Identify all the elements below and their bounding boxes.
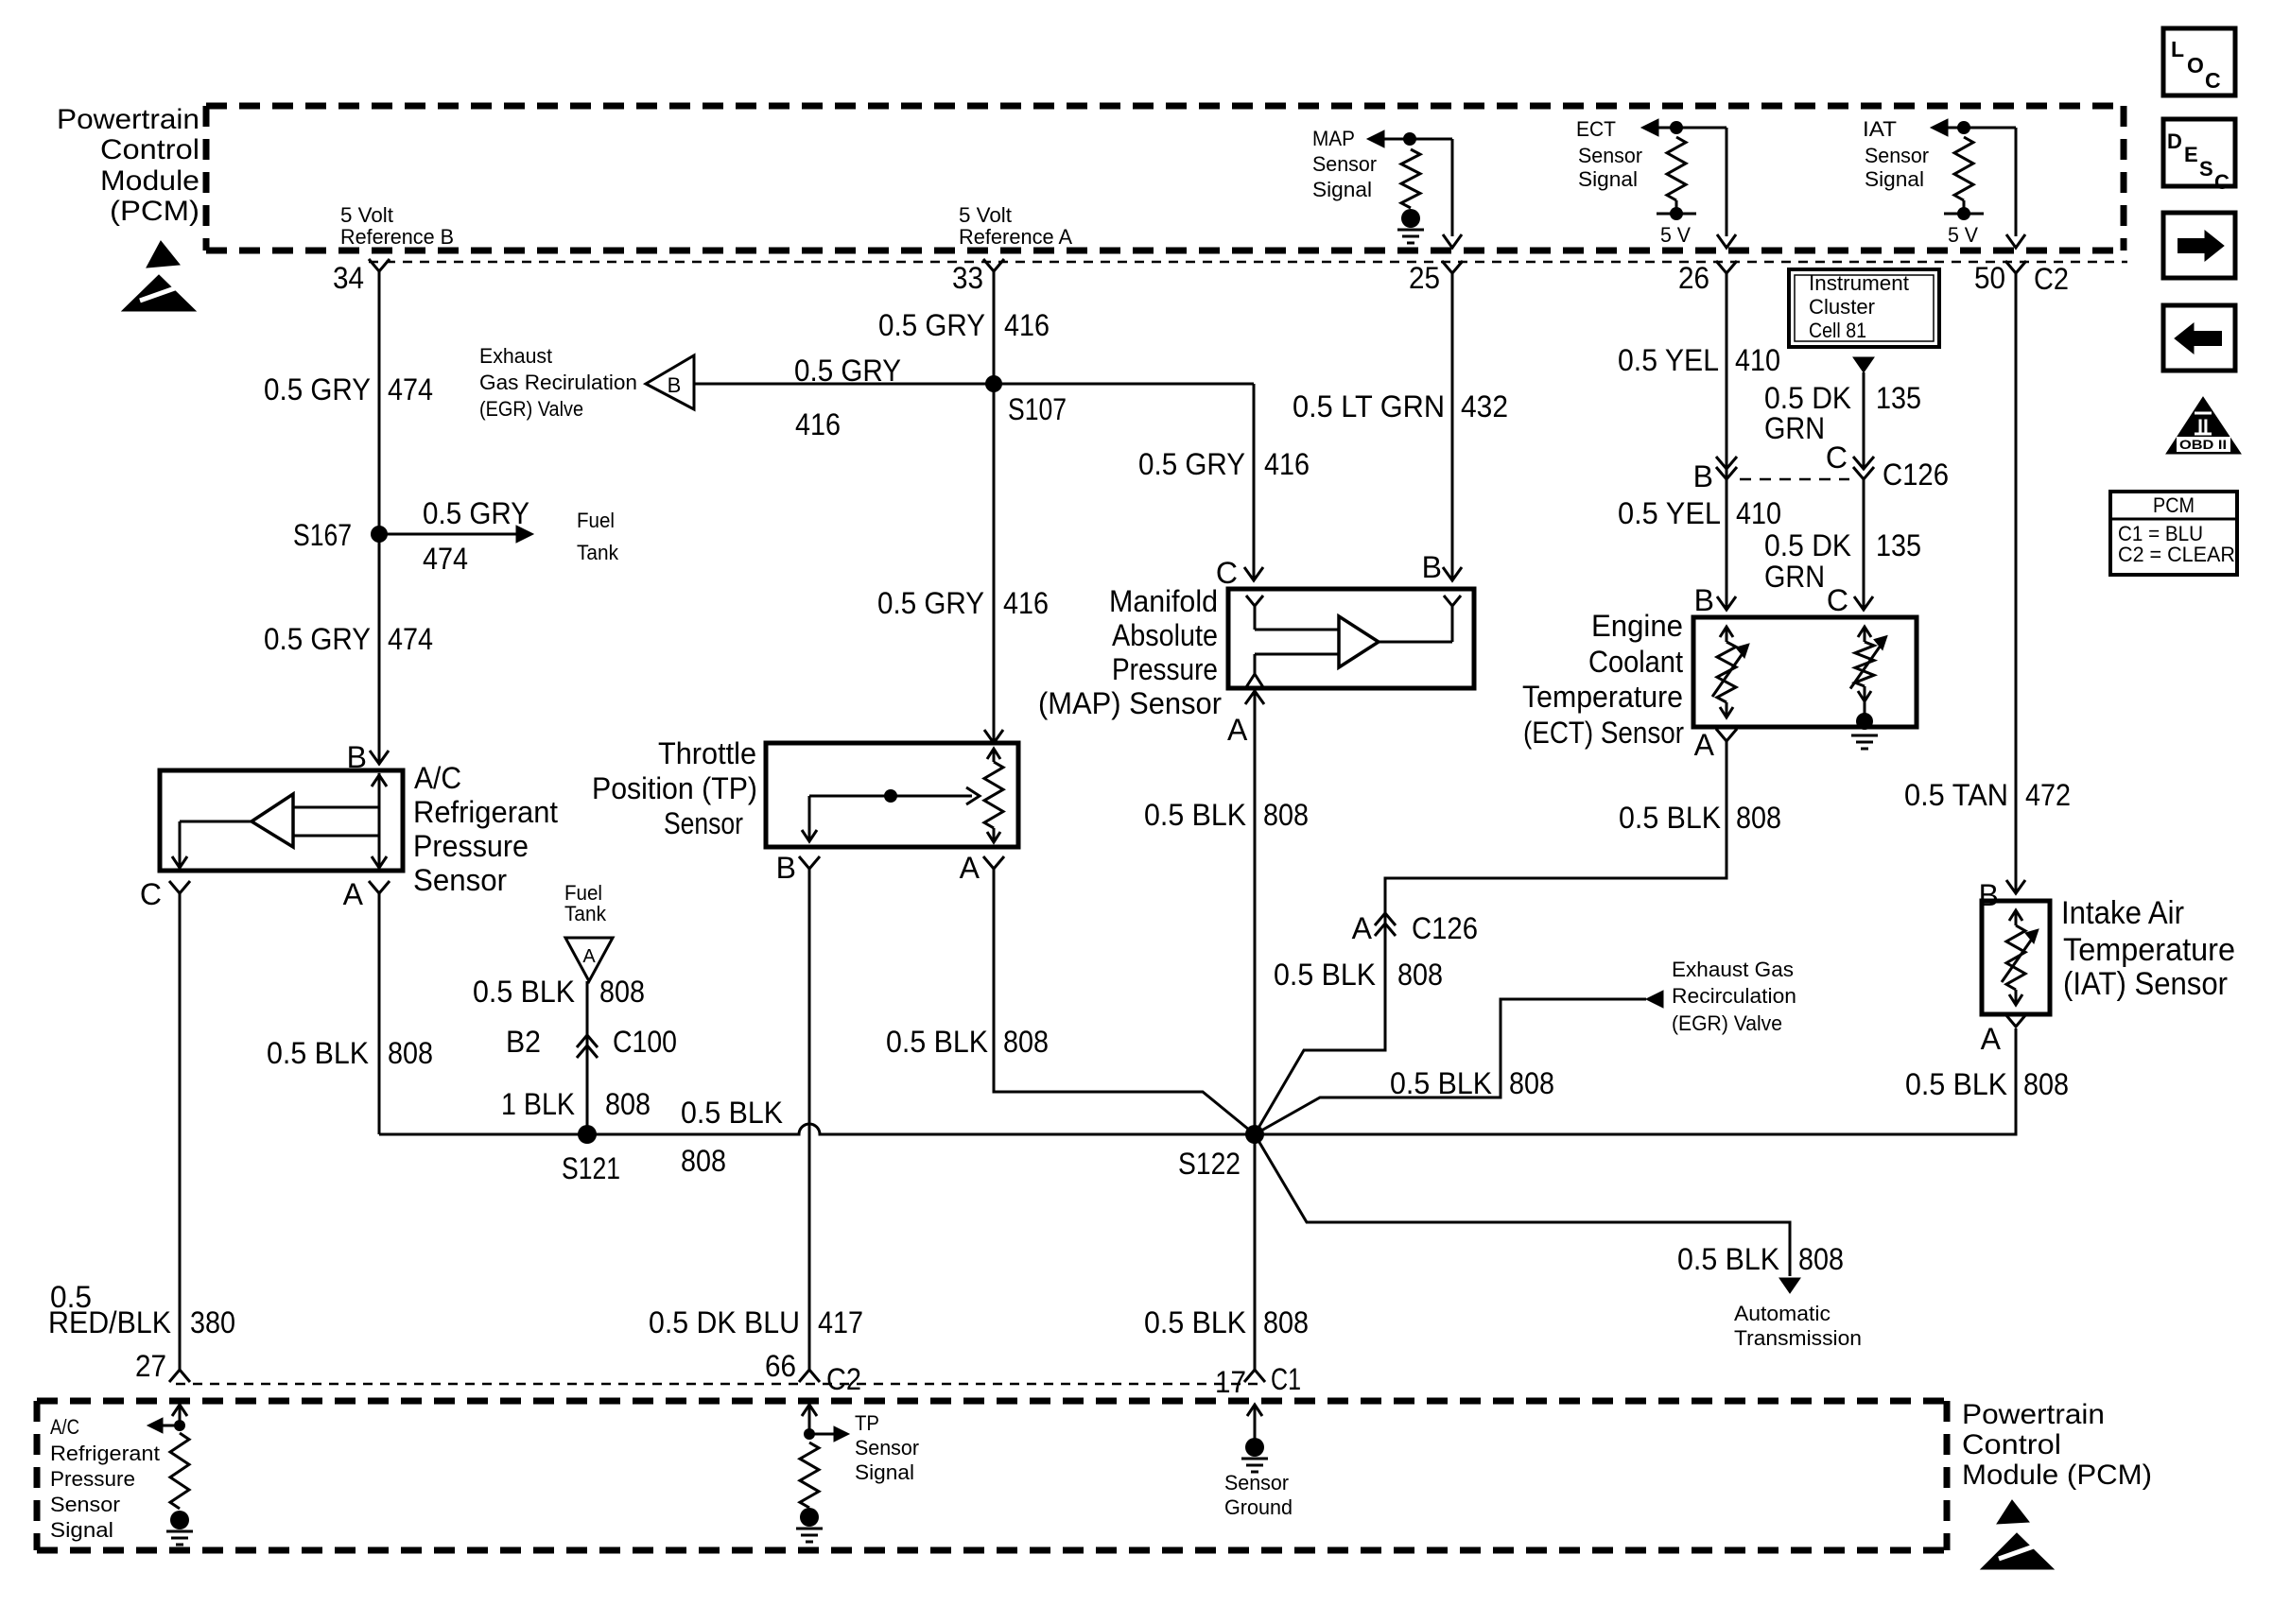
MAP sensor pin A arrowhead bbox=[1245, 691, 1264, 704]
wire ckt410 pin26 to ECT B bbox=[1726, 273, 1728, 608]
engine coolant temperature sensor box bbox=[1693, 617, 1917, 727]
wire ckt808 S122 to EGR valve bbox=[1255, 999, 1646, 1134]
PCM connector color legend box bbox=[2110, 492, 2237, 575]
svg-text:0.5 BLK: 0.5 BLK bbox=[886, 1025, 988, 1059]
svg-text:808: 808 bbox=[1509, 1066, 1554, 1100]
svg-text:B: B bbox=[668, 373, 682, 397]
MAP internal C input fork bbox=[1246, 596, 1263, 606]
svg-text:Cell 81: Cell 81 bbox=[1809, 319, 1866, 342]
instrument cluster output arrow bbox=[1853, 357, 1874, 372]
A/C sensor pin C fork bbox=[169, 881, 190, 893]
svg-text:TP: TP bbox=[855, 1411, 879, 1435]
svg-text:S107: S107 bbox=[1008, 392, 1067, 426]
svg-text:Exhaust: Exhaust bbox=[479, 344, 552, 368]
A/C refrigerant pressure sensor box bbox=[160, 770, 403, 871]
A/C sensor internal B-A line bbox=[378, 773, 381, 868]
svg-text:0.5 GRY: 0.5 GRY bbox=[878, 308, 985, 342]
wire ckt417 TP B to pin 66 bbox=[808, 869, 811, 1370]
svg-text:ECT: ECT bbox=[1576, 117, 1616, 141]
connector C126 A-side double fork bbox=[1375, 913, 1396, 925]
wire S167 to fuel tank bbox=[379, 533, 518, 536]
A/C sensor pin B arrowhead bbox=[370, 751, 389, 764]
svg-text:Sensor: Sensor bbox=[413, 863, 507, 897]
svg-text:C2 = CLEAR: C2 = CLEAR bbox=[2118, 543, 2235, 566]
svg-text:Ground: Ground bbox=[1224, 1495, 1293, 1519]
wire ckt808 ECT A to S122 via C126 A bbox=[1255, 741, 1726, 1134]
connector C100 double fork bbox=[577, 1035, 598, 1047]
throttle position sensor box bbox=[766, 743, 1018, 847]
svg-text:Cluster: Cluster bbox=[1809, 295, 1875, 319]
svg-text:A: A bbox=[960, 851, 980, 885]
splice S107 bbox=[985, 375, 1002, 392]
OBD II triangle symbol bbox=[2166, 397, 2241, 454]
svg-text:0.5 BLK: 0.5 BLK bbox=[1144, 1305, 1246, 1339]
svg-text:D: D bbox=[2167, 130, 2182, 153]
svg-text:Position (TP): Position (TP) bbox=[592, 771, 757, 805]
TP sensor pin A fork bbox=[983, 856, 1004, 869]
ESD warning symbol bottom-right bbox=[1997, 1500, 2029, 1524]
svg-text:A: A bbox=[582, 946, 596, 967]
MAP sensor pin B arrowhead bbox=[1443, 567, 1462, 580]
svg-text:Sensor: Sensor bbox=[1865, 144, 1929, 167]
svg-text:IAT: IAT bbox=[1863, 117, 1897, 141]
svg-text:C100: C100 bbox=[613, 1025, 677, 1059]
connector C126 dashed link bbox=[1740, 478, 1849, 481]
svg-text:0.5 DK BLU: 0.5 DK BLU bbox=[649, 1305, 800, 1339]
ECT sensor pin C arrowhead bbox=[1854, 596, 1873, 610]
A/C refrigerant pressure sensor signal resistor inside PCM bbox=[172, 1405, 187, 1416]
wire ckt474 pin34 to A/C B bbox=[378, 271, 381, 762]
svg-text:GRN: GRN bbox=[1764, 560, 1825, 594]
svg-text:410: 410 bbox=[1735, 343, 1780, 377]
svg-text:A/C: A/C bbox=[414, 761, 461, 795]
svg-text:432: 432 bbox=[1461, 389, 1508, 423]
svg-text:0.5 GRY: 0.5 GRY bbox=[794, 354, 901, 388]
wire ckt472 pin50 to IAT B bbox=[2015, 273, 2018, 891]
pin 27 connector fork bbox=[169, 1370, 190, 1382]
wire ckt380 A/C C to pin 27 bbox=[179, 893, 182, 1370]
svg-text:Temperature: Temperature bbox=[2063, 932, 2235, 968]
svg-text:Transmission: Transmission bbox=[1734, 1326, 1862, 1350]
svg-text:0.5 GRY: 0.5 GRY bbox=[264, 372, 371, 406]
A/C sensor internal amp inputs bbox=[293, 806, 379, 809]
svg-text:808: 808 bbox=[599, 975, 645, 1009]
svg-text:808: 808 bbox=[1798, 1242, 1844, 1276]
svg-text:5 V: 5 V bbox=[1948, 223, 1978, 247]
svg-text:474: 474 bbox=[388, 372, 433, 406]
svg-text:E: E bbox=[2184, 143, 2198, 166]
svg-text:(MAP) Sensor: (MAP) Sensor bbox=[1038, 686, 1222, 720]
svg-text:Absolute: Absolute bbox=[1112, 618, 1218, 652]
svg-text:474: 474 bbox=[423, 542, 468, 576]
svg-text:474: 474 bbox=[388, 622, 433, 656]
svg-text:Signal: Signal bbox=[50, 1518, 113, 1542]
svg-text:1 BLK: 1 BLK bbox=[501, 1087, 575, 1121]
svg-text:0.5 YEL: 0.5 YEL bbox=[1618, 496, 1721, 530]
svg-text:Signal: Signal bbox=[855, 1460, 914, 1484]
svg-text:A: A bbox=[343, 877, 364, 911]
svg-text:Temperature: Temperature bbox=[1522, 680, 1683, 714]
MAP internal A fork bbox=[1246, 674, 1263, 687]
TP sensor pin B fork bbox=[799, 856, 820, 869]
svg-text:Coolant: Coolant bbox=[1588, 645, 1683, 679]
svg-text:0.5 YEL: 0.5 YEL bbox=[1618, 343, 1719, 377]
svg-text:Powertrain: Powertrain bbox=[1962, 1399, 2105, 1430]
pin 33 connector fork bbox=[983, 259, 1004, 271]
pin 17 connector fork bbox=[1244, 1370, 1265, 1382]
svg-text:C: C bbox=[2214, 170, 2230, 194]
svg-text:S: S bbox=[2199, 157, 2213, 181]
wire ckt135 cluster to C126 C bbox=[1863, 372, 1865, 467]
svg-text:B: B bbox=[776, 851, 796, 885]
ECT sensor pin B arrowhead bbox=[1717, 596, 1736, 610]
svg-text:Intake Air: Intake Air bbox=[2061, 895, 2184, 931]
TP internal potentiometer resistor bbox=[987, 749, 1000, 759]
svg-text:0.5 DK: 0.5 DK bbox=[1764, 381, 1851, 415]
svg-text:Sensor: Sensor bbox=[1578, 144, 1642, 167]
svg-text:C1: C1 bbox=[1271, 1362, 1301, 1396]
svg-text:Manifold: Manifold bbox=[1109, 584, 1218, 618]
svg-text:808: 808 bbox=[1263, 1305, 1309, 1339]
pin 26 connector fork bbox=[1716, 261, 1737, 273]
DESC hyperlink box bbox=[2163, 119, 2235, 186]
svg-text:380: 380 bbox=[190, 1305, 235, 1339]
svg-text:Signal: Signal bbox=[1578, 167, 1638, 191]
svg-text:417: 417 bbox=[818, 1305, 863, 1339]
svg-text:0.5 BLK: 0.5 BLK bbox=[1144, 798, 1246, 832]
MAP sensor box bbox=[1228, 589, 1474, 688]
svg-text:808: 808 bbox=[1263, 798, 1309, 832]
svg-text:B2: B2 bbox=[506, 1025, 541, 1059]
svg-text:S121: S121 bbox=[562, 1151, 620, 1185]
svg-text:Signal: Signal bbox=[1312, 178, 1372, 201]
svg-text:Sensor: Sensor bbox=[50, 1493, 120, 1516]
svg-text:MAP: MAP bbox=[1312, 127, 1355, 150]
ESD warning symbol top-left bbox=[147, 241, 180, 268]
svg-text:Sensor: Sensor bbox=[1224, 1471, 1289, 1494]
svg-text:C: C bbox=[1216, 556, 1238, 590]
svg-text:Exhaust Gas: Exhaust Gas bbox=[1672, 958, 1794, 981]
svg-text:Refrigerant: Refrigerant bbox=[413, 795, 558, 829]
svg-text:25: 25 bbox=[1409, 261, 1440, 295]
svg-text:416: 416 bbox=[1264, 447, 1310, 481]
svg-text:Instrument: Instrument bbox=[1809, 271, 1909, 295]
svg-text:C2: C2 bbox=[2034, 262, 2069, 296]
svg-text:0.5 TAN: 0.5 TAN bbox=[1904, 778, 2008, 812]
svg-text:808: 808 bbox=[1736, 801, 1781, 835]
splice S167 bbox=[371, 526, 388, 543]
svg-text:Signal: Signal bbox=[1865, 167, 1924, 191]
svg-text:17: 17 bbox=[1215, 1365, 1246, 1399]
svg-text:GRN: GRN bbox=[1764, 411, 1825, 445]
svg-text:A: A bbox=[1981, 1022, 2002, 1056]
svg-text:(IAT) Sensor: (IAT) Sensor bbox=[2063, 966, 2228, 1002]
A/C sensor pin A fork bbox=[369, 881, 390, 893]
svg-text:5 Volt: 5 Volt bbox=[959, 203, 1012, 227]
IAT sensor pin A fork bbox=[2005, 1014, 2026, 1027]
svg-text:33: 33 bbox=[952, 261, 983, 295]
wire ckt416 S107 to EGR valve bbox=[694, 383, 994, 386]
wire ckt808 S122 to pin 17 bbox=[1254, 1134, 1257, 1370]
svg-text:Sensor: Sensor bbox=[664, 806, 743, 840]
pin 25 connector fork bbox=[1442, 261, 1463, 273]
svg-text:0.5 BLK: 0.5 BLK bbox=[1390, 1066, 1492, 1100]
ECT sensor pin A fork bbox=[1716, 729, 1737, 741]
svg-text:135: 135 bbox=[1876, 528, 1921, 562]
MAP internal amplifier bbox=[1339, 616, 1379, 667]
TP sensor pin C arrowhead bbox=[984, 730, 1003, 743]
svg-text:0.5 DK: 0.5 DK bbox=[1764, 528, 1851, 562]
svg-text:Gas Recirulation: Gas Recirulation bbox=[479, 371, 637, 394]
svg-text:Fuel: Fuel bbox=[577, 509, 615, 532]
svg-text:C: C bbox=[2205, 68, 2221, 93]
wire ckt808 TP A to S122 bbox=[994, 869, 1255, 1134]
ECT internal thermistor 1 bbox=[1720, 627, 1733, 637]
wire ckt808 MAP A to S122 bbox=[1254, 689, 1257, 1134]
svg-text:0.5 GRY: 0.5 GRY bbox=[423, 496, 529, 530]
LOC hyperlink box bbox=[2163, 28, 2235, 95]
svg-text:S167: S167 bbox=[293, 518, 352, 552]
svg-text:C126: C126 bbox=[1412, 911, 1478, 945]
svg-text:B: B bbox=[1693, 459, 1713, 493]
svg-text:C: C bbox=[1827, 583, 1848, 617]
svg-text:Engine: Engine bbox=[1591, 609, 1683, 643]
svg-text:Module (PCM): Module (PCM) bbox=[1962, 1460, 2152, 1491]
svg-text:C2: C2 bbox=[826, 1362, 861, 1396]
IAT internal thermistor bbox=[2009, 910, 2022, 921]
PCM module dashed box (bottom) bbox=[37, 1398, 1947, 1405]
svg-text:(EGR) Valve: (EGR) Valve bbox=[1672, 1011, 1782, 1035]
svg-text:808: 808 bbox=[605, 1087, 651, 1121]
svg-text:C: C bbox=[140, 877, 162, 911]
svg-text:50: 50 bbox=[1974, 261, 2005, 295]
svg-text:Pressure: Pressure bbox=[413, 829, 529, 863]
svg-text:A: A bbox=[1227, 713, 1248, 747]
svg-text:808: 808 bbox=[1003, 1025, 1049, 1059]
wire ckt808 S122 to automatic transmission bbox=[1255, 1134, 1790, 1276]
svg-text:S122: S122 bbox=[1178, 1147, 1241, 1181]
svg-text:(ECT) Sensor: (ECT) Sensor bbox=[1523, 716, 1684, 750]
svg-text:808: 808 bbox=[2023, 1067, 2069, 1101]
svg-text:0.5 GRY: 0.5 GRY bbox=[877, 586, 984, 620]
wire ckt135 C126 to ECT C bbox=[1863, 479, 1865, 608]
connector C126 C-side double fork bbox=[1853, 457, 1874, 469]
svg-text:26: 26 bbox=[1678, 261, 1709, 295]
svg-text:0.5 BLK: 0.5 BLK bbox=[1274, 958, 1376, 992]
IAT sensor pin B arrowhead bbox=[2006, 880, 2025, 893]
svg-text:416: 416 bbox=[795, 407, 841, 441]
svg-text:0.5 GRY: 0.5 GRY bbox=[264, 622, 371, 656]
wire ckt432 pin25 to MAP B bbox=[1451, 273, 1454, 579]
svg-text:L: L bbox=[2171, 37, 2184, 61]
svg-text:OBD II: OBD II bbox=[2179, 437, 2227, 452]
svg-text:0.5 BLK: 0.5 BLK bbox=[1619, 801, 1721, 835]
svg-text:0.5 BLK: 0.5 BLK bbox=[1677, 1242, 1779, 1276]
svg-text:Pressure: Pressure bbox=[1112, 652, 1218, 686]
svg-text:Automatic: Automatic bbox=[1734, 1302, 1831, 1325]
pin 50 connector fork bbox=[2005, 261, 2026, 273]
svg-text:0.5 LT GRN: 0.5 LT GRN bbox=[1293, 389, 1445, 423]
svg-text:(EGR) Valve: (EGR) Valve bbox=[479, 397, 583, 421]
svg-text:135: 135 bbox=[1876, 381, 1921, 415]
svg-text:B: B bbox=[1694, 583, 1714, 617]
PCM bottom connector boundary (thin dashed) bbox=[176, 1383, 1263, 1386]
splice S121 bbox=[578, 1125, 597, 1144]
svg-text:808: 808 bbox=[388, 1036, 433, 1070]
instrument cluster box bbox=[1789, 269, 1939, 347]
svg-text:472: 472 bbox=[2025, 778, 2071, 812]
right-arrow nav box bbox=[2163, 213, 2235, 278]
svg-text:0.5 BLK: 0.5 BLK bbox=[267, 1036, 369, 1070]
svg-text:Tank: Tank bbox=[577, 541, 619, 564]
svg-text:A: A bbox=[1352, 911, 1373, 945]
svg-text:A/C: A/C bbox=[50, 1415, 79, 1439]
svg-text:C: C bbox=[1826, 441, 1848, 475]
A/C sensor internal amplifier bbox=[252, 794, 293, 847]
wire ckt808 A/C A to ground bus bbox=[378, 893, 381, 1134]
svg-text:Reference B: Reference B bbox=[340, 225, 454, 249]
svg-text:(PCM): (PCM) bbox=[110, 196, 200, 227]
intake air temperature sensor box bbox=[1982, 901, 2050, 1014]
pin 66 connector fork bbox=[799, 1370, 820, 1382]
svg-text:Sensor: Sensor bbox=[1312, 152, 1377, 176]
svg-text:808: 808 bbox=[1397, 958, 1443, 992]
svg-text:0.5 BLK: 0.5 BLK bbox=[1905, 1067, 2007, 1101]
MAP internal amp inputs bbox=[1255, 629, 1339, 631]
svg-text:0.5 BLK: 0.5 BLK bbox=[473, 975, 575, 1009]
wire ckt416 S107 to MAP C bbox=[994, 383, 1254, 386]
svg-text:RED/BLK: RED/BLK bbox=[48, 1305, 171, 1339]
svg-text:5 V: 5 V bbox=[1660, 223, 1691, 247]
svg-text:416: 416 bbox=[1003, 586, 1049, 620]
ground bus wire S121-S122 with hop over TP B wire bbox=[379, 1028, 2016, 1134]
svg-text:0.5 BLK: 0.5 BLK bbox=[681, 1096, 783, 1130]
svg-text:5 Volt: 5 Volt bbox=[340, 203, 393, 227]
svg-text:O: O bbox=[2187, 53, 2204, 78]
svg-text:0.5 GRY: 0.5 GRY bbox=[1138, 447, 1245, 481]
svg-text:Throttle: Throttle bbox=[658, 736, 756, 770]
svg-text:66: 66 bbox=[765, 1349, 796, 1383]
svg-text:Refrigerant: Refrigerant bbox=[50, 1442, 160, 1465]
ECT internal thermistor 2 bbox=[1858, 627, 1871, 637]
svg-text:B: B bbox=[1422, 550, 1442, 584]
svg-text:C126: C126 bbox=[1883, 458, 1949, 492]
sensor ground inside PCM bbox=[1247, 1405, 1262, 1416]
svg-text:Recirculation: Recirculation bbox=[1672, 984, 1796, 1008]
svg-text:Reference A: Reference A bbox=[959, 225, 1072, 249]
connector C126 B-side double fork bbox=[1716, 457, 1737, 469]
wire fuel tank ground to S121 bbox=[586, 981, 589, 1134]
PCM top connector boundary (thin dashed) bbox=[369, 261, 2127, 264]
svg-text:34: 34 bbox=[333, 261, 364, 295]
PCM module dashed box (top) bbox=[206, 103, 2124, 110]
EGR valve off-page triangle B bbox=[646, 355, 694, 409]
TP internal wiper arm bbox=[809, 795, 972, 798]
pin 34 connector fork bbox=[369, 259, 390, 271]
ECT internal case ground bbox=[1851, 734, 1878, 737]
left-arrow nav box bbox=[2163, 305, 2235, 371]
wire ckt416 pin33 to TP C bbox=[993, 271, 996, 741]
svg-text:Tank: Tank bbox=[564, 902, 607, 925]
svg-text:27: 27 bbox=[135, 1349, 166, 1383]
svg-text:Powertrain: Powertrain bbox=[57, 104, 200, 135]
svg-text:PCM: PCM bbox=[2153, 493, 2195, 517]
svg-text:Control: Control bbox=[100, 134, 200, 165]
MAP sensor pin C arrowhead bbox=[1244, 567, 1263, 580]
svg-text:Control: Control bbox=[1962, 1429, 2061, 1460]
svg-text:416: 416 bbox=[1004, 308, 1050, 342]
svg-text:410: 410 bbox=[1736, 496, 1781, 530]
svg-text:Module: Module bbox=[100, 165, 200, 197]
svg-text:Sensor: Sensor bbox=[855, 1436, 919, 1460]
splice S122 bbox=[1245, 1125, 1264, 1144]
TP sensor signal resistor inside PCM bbox=[802, 1405, 817, 1416]
svg-text:A: A bbox=[1694, 728, 1715, 762]
svg-text:808: 808 bbox=[681, 1144, 726, 1178]
MAP internal output to B bbox=[1379, 641, 1452, 644]
A/C sensor internal output line bbox=[180, 821, 252, 823]
fuel tank off-page triangle bbox=[565, 938, 613, 981]
svg-text:Pressure: Pressure bbox=[50, 1467, 135, 1491]
